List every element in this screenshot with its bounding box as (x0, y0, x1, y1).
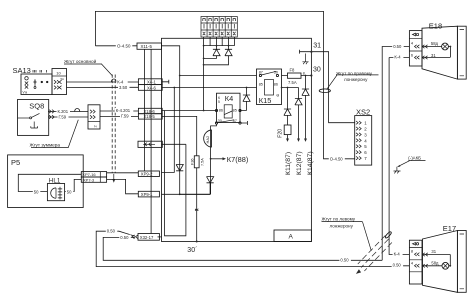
svg-text:ХР9-1: ХР9-1 (141, 192, 153, 197)
svg-text:50: 50 (67, 189, 72, 194)
svg-text:31: 31 (313, 43, 321, 50)
svg-text:SQ8: SQ8 (29, 101, 44, 110)
svg-text:3.50: 3.50 (119, 85, 128, 90)
svg-text:31: 31 (431, 53, 436, 58)
svg-text:ХР7-3: ХР7-3 (83, 177, 95, 182)
svg-text:Р5: Р5 (11, 158, 20, 167)
svg-text:50: 50 (34, 189, 39, 194)
svg-text:0.50: 0.50 (393, 44, 402, 49)
svg-text:К7(88): К7(88) (227, 155, 249, 164)
svg-text:86: 86 (219, 109, 223, 113)
svg-text:Жгут по левому: Жгут по левому (322, 216, 356, 221)
svg-text:58д: 58д (431, 261, 439, 266)
svg-text:лонжерону: лонжерону (330, 224, 354, 229)
svg-text:НА2: НА2 (205, 135, 210, 144)
svg-text:К14(87): К14(87) (307, 151, 314, 175)
svg-text:30´: 30´ (187, 247, 197, 254)
svg-text:К-4.201: К-4.201 (116, 108, 131, 113)
svg-text:Х32-17: Х32-17 (140, 235, 154, 240)
svg-text:(-)АКБ: (-)АКБ (408, 155, 421, 160)
svg-text:Е18: Е18 (429, 21, 442, 30)
svg-text:0.50: 0.50 (120, 235, 129, 240)
svg-text:К-4: К-4 (117, 80, 124, 85)
svg-text:30: 30 (274, 70, 278, 74)
svg-text:К11(87): К11(87) (285, 152, 292, 175)
svg-text:5А: 5А (61, 77, 65, 81)
svg-text:87: 87 (259, 70, 263, 74)
svg-text:Ѳ: Ѳ (276, 93, 279, 97)
svg-text:К15: К15 (259, 96, 272, 105)
svg-text:85: 85 (259, 83, 263, 87)
svg-text:Х18-6: Х18-6 (144, 109, 156, 114)
svg-text:5: 5 (218, 100, 220, 104)
svg-text:F20: F20 (278, 129, 284, 138)
svg-text:8: 8 (303, 72, 305, 76)
svg-text:Х4-1: Х4-1 (147, 80, 157, 85)
svg-text:Х18-5: Х18-5 (144, 114, 156, 119)
svg-text:7.5A: 7.5A (201, 158, 205, 166)
svg-text:Г.59: Г.59 (59, 115, 67, 120)
svg-text:Х4-6: Х4-6 (147, 85, 157, 90)
svg-text:лонжерону: лонжерону (344, 77, 368, 82)
svg-text:0.50: 0.50 (393, 262, 402, 267)
svg-text:ХР7-16: ХР7-16 (82, 172, 96, 177)
svg-text:К-4: К-4 (394, 55, 401, 60)
svg-text:К12(87): К12(87) (296, 151, 303, 175)
svg-text:0.50: 0.50 (107, 229, 116, 234)
svg-text:ХР9-2: ХР9-2 (141, 172, 153, 177)
svg-text:А: А (289, 234, 294, 241)
svg-text:0.50: 0.50 (340, 258, 349, 263)
svg-text:О-4.50: О-4.50 (330, 156, 343, 161)
svg-text:F8: F8 (290, 68, 296, 73)
svg-text:85: 85 (233, 109, 237, 113)
svg-text:Г.59: Г.59 (121, 114, 129, 119)
svg-text:86: 86 (274, 83, 278, 87)
svg-text:XS2: XS2 (356, 107, 370, 116)
svg-text:F36: F36 (191, 158, 195, 165)
svg-text:10: 10 (56, 71, 61, 76)
svg-text:К4: К4 (225, 94, 233, 103)
svg-text:31: 31 (431, 249, 436, 254)
svg-text:Жгут зуммера: Жгут зуммера (30, 142, 61, 147)
svg-text:30: 30 (313, 67, 321, 74)
svg-text:7.5A: 7.5A (288, 80, 297, 85)
svg-text:58д: 58д (431, 41, 439, 46)
svg-text:К.201: К.201 (58, 109, 69, 114)
svg-text:Х11-5: Х11-5 (141, 44, 153, 49)
svg-text:Жгут основной: Жгут основной (64, 58, 97, 64)
svg-text:К-4: К-4 (394, 252, 401, 257)
svg-text:О-4.50: О-4.50 (117, 44, 131, 49)
